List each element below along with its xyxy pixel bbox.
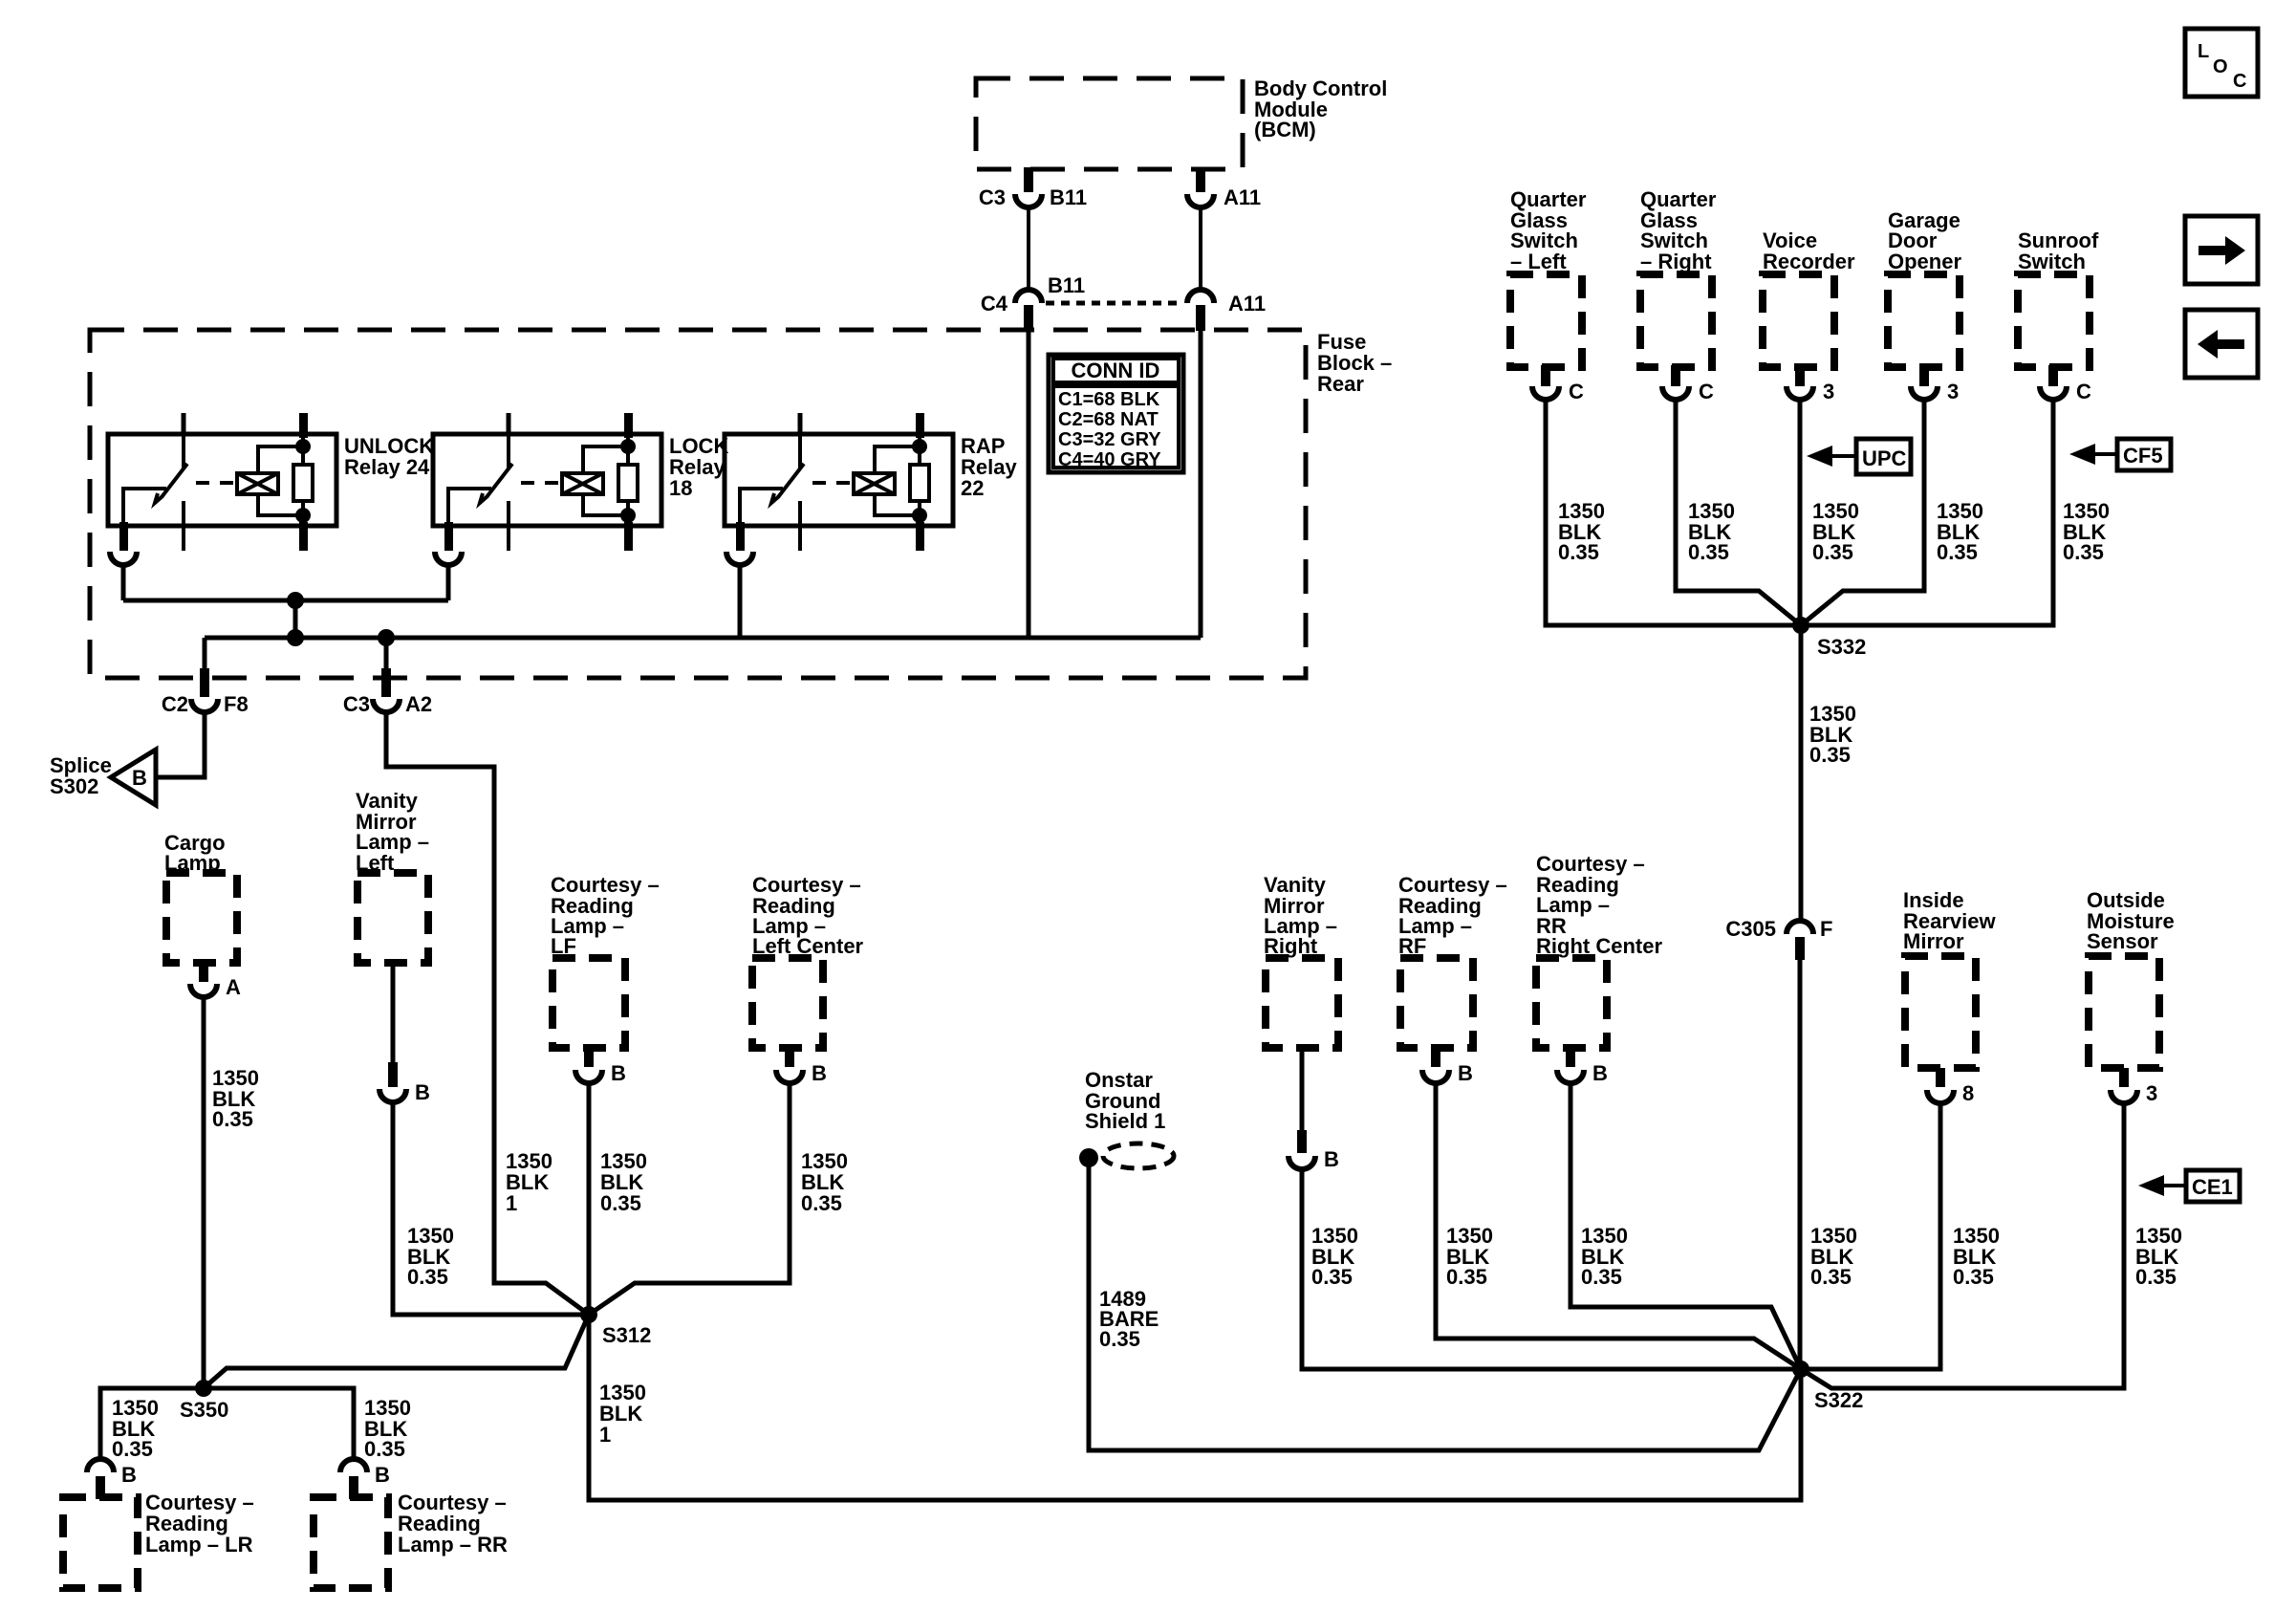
splice S312 bbox=[580, 1306, 651, 1347]
svg-text:(BCM): (BCM) bbox=[1254, 118, 1316, 142]
connector C4 B11 (fuse block entry) bbox=[981, 273, 1085, 331]
wire vanity right to S322 bbox=[1302, 1168, 1801, 1369]
connector B (courtesy reading lamp left center) bbox=[776, 1046, 827, 1085]
svg-text:C3: C3 bbox=[343, 692, 370, 716]
arrow right legend box bbox=[2185, 216, 2258, 284]
Cargo Lamp box bbox=[164, 831, 237, 963]
svg-text:Switch: Switch bbox=[2018, 250, 2086, 273]
Sunroof Switch box bbox=[2018, 229, 2099, 367]
svg-text:0.35: 0.35 bbox=[1581, 1265, 1622, 1289]
svg-text:B: B bbox=[1324, 1147, 1339, 1171]
wire QGS-L to S332 bbox=[1546, 399, 1801, 625]
svg-text:B11: B11 bbox=[1050, 185, 1087, 209]
node main bus junction bbox=[287, 629, 304, 646]
Vanity Mirror Lamp - Left box bbox=[356, 789, 429, 963]
connector B (courtesy reading lamp LF) bbox=[575, 1046, 626, 1085]
connector B (courtesy reading lamp LR) bbox=[87, 1459, 137, 1499]
CE1 callout bbox=[2138, 1170, 2240, 1202]
svg-text:B: B bbox=[1458, 1061, 1473, 1085]
wire vanity right lamp lead bbox=[1300, 1048, 1305, 1134]
svg-text:UPC: UPC bbox=[1862, 446, 1907, 470]
wire vanity left lamp lead bbox=[391, 963, 396, 1064]
svg-text:0.35: 0.35 bbox=[1953, 1265, 1994, 1289]
svg-text:B: B bbox=[812, 1061, 827, 1085]
wire rearview mirror to S322 bbox=[1801, 1101, 1940, 1369]
svg-text:C: C bbox=[2076, 380, 2091, 403]
svg-text:Relay 24: Relay 24 bbox=[344, 455, 430, 479]
node relay bus junction bbox=[287, 592, 304, 609]
Quarter Glass Switch - Left box bbox=[1510, 187, 1587, 367]
svg-text:3: 3 bbox=[2146, 1081, 2157, 1105]
label 1350 BLK 0.35 (C305-S322) bbox=[1810, 1224, 1857, 1289]
svg-text:S350: S350 bbox=[180, 1398, 228, 1422]
Courtesy Reading Lamp RF box bbox=[1398, 873, 1507, 1048]
svg-text:C: C bbox=[2233, 71, 2246, 92]
svg-text:3: 3 bbox=[1823, 380, 1834, 403]
svg-text:O: O bbox=[2213, 56, 2228, 77]
svg-text:Lamp – LR: Lamp – LR bbox=[145, 1533, 253, 1557]
wire sunroof switch to S332 bbox=[1801, 399, 2053, 625]
label 1350 BLK 1 (S312 out) bbox=[599, 1381, 646, 1447]
wire B11 to C4 bbox=[1027, 207, 1030, 291]
relay UNLOCK Relay 24 bbox=[108, 413, 336, 565]
svg-text:Shield 1: Shield 1 bbox=[1085, 1109, 1165, 1133]
label 1350 BLK 0.35 (RR) bbox=[364, 1396, 411, 1461]
svg-text:0.35: 0.35 bbox=[1688, 540, 1729, 564]
wire Onstar ground to S322 bbox=[1089, 1165, 1801, 1450]
svg-text:Recorder: Recorder bbox=[1763, 250, 1855, 273]
svg-text:Mirror: Mirror bbox=[1903, 929, 1964, 953]
label 1350 BLK 0.35 (rearview) bbox=[1953, 1224, 2000, 1289]
svg-text:0.35: 0.35 bbox=[1937, 540, 1978, 564]
svg-text:B: B bbox=[611, 1061, 626, 1085]
connector B (courtesy reading lamp RR) bbox=[340, 1459, 390, 1499]
Courtesy Reading Lamp LR box bbox=[63, 1491, 254, 1588]
splice S350 bbox=[180, 1380, 228, 1422]
label 1350 BLK 0.35 (GDO) bbox=[1937, 499, 1983, 564]
svg-text:CONN ID: CONN ID bbox=[1072, 359, 1160, 382]
label 1350 BLK 0.35 (S332-C305) bbox=[1809, 702, 1856, 767]
wire cargo lamp to S350 bbox=[202, 995, 206, 1388]
wire relay bus bbox=[123, 599, 448, 603]
label 1350 BLK 1 bbox=[506, 1149, 552, 1215]
svg-text:0.35: 0.35 bbox=[801, 1191, 842, 1215]
svg-text:– Left: – Left bbox=[1510, 250, 1567, 273]
connector 3 (outside moisture sensor) bbox=[2111, 1068, 2157, 1105]
CONN ID table bbox=[1049, 355, 1183, 472]
svg-text:C4: C4 bbox=[981, 292, 1008, 316]
Voice Recorder box bbox=[1763, 229, 1855, 367]
wire S332 to C305 bbox=[1799, 625, 1804, 920]
svg-text:18: 18 bbox=[669, 476, 692, 500]
Courtesy Reading Lamp RR box bbox=[314, 1491, 508, 1588]
svg-text:CF5: CF5 bbox=[2123, 444, 2163, 468]
Outside Moisture Sensor box bbox=[2087, 888, 2175, 1068]
svg-text:L: L bbox=[2198, 41, 2209, 62]
svg-text:3: 3 bbox=[1947, 380, 1959, 403]
svg-text:A2: A2 bbox=[405, 692, 432, 716]
connector C (sunroof switch) bbox=[2040, 365, 2091, 403]
wire S312 to S350 bbox=[204, 1315, 589, 1388]
svg-text:C4=40 GRY: C4=40 GRY bbox=[1058, 449, 1161, 470]
relay RAP Relay 22 bbox=[725, 413, 953, 565]
connector B (vanity mirror lamp left) bbox=[379, 1062, 430, 1104]
wire LOCK relay to bus bbox=[446, 565, 451, 600]
Quarter Glass Switch - Right box bbox=[1640, 187, 1717, 367]
svg-text:0.35: 0.35 bbox=[1558, 540, 1599, 564]
svg-text:C3=32 GRY: C3=32 GRY bbox=[1058, 429, 1161, 450]
splice S302 bbox=[50, 750, 156, 805]
wire voice recorder to S332 bbox=[1798, 399, 1803, 625]
svg-text:0.35: 0.35 bbox=[1810, 1265, 1852, 1289]
dashed connector mating line C4-A11 bbox=[1046, 301, 1183, 306]
svg-text:F: F bbox=[1820, 917, 1832, 941]
wire bus link bbox=[293, 600, 298, 638]
connector C2 F8 bbox=[162, 638, 249, 716]
wire vanity left to S312 bbox=[393, 1102, 589, 1315]
wire C2/F8 to splice S302 bbox=[156, 712, 205, 777]
UPC callout bbox=[1807, 439, 1911, 474]
wire QGS-R to S332 bbox=[1676, 399, 1801, 625]
svg-text:0.35: 0.35 bbox=[600, 1191, 641, 1215]
wire RR right center lamp to S322 bbox=[1570, 1082, 1801, 1369]
svg-text:Lamp – RR: Lamp – RR bbox=[398, 1533, 508, 1557]
label 1350 BLK 0.35 (voice recorder) bbox=[1812, 499, 1859, 564]
label 1350 BLK 0.35 (LF) bbox=[600, 1149, 647, 1215]
svg-text:0.35: 0.35 bbox=[1311, 1265, 1353, 1289]
svg-text:S302: S302 bbox=[50, 774, 98, 798]
label 1350 BLK 0.35 (LR) bbox=[112, 1396, 159, 1461]
connector A11 (BCM) bbox=[1187, 167, 1261, 209]
label 1350 BLK 0.35 (RR right center) bbox=[1581, 1224, 1628, 1289]
svg-text:– Right: – Right bbox=[1640, 250, 1712, 273]
svg-text:22: 22 bbox=[961, 476, 984, 500]
svg-text:A11: A11 bbox=[1224, 185, 1261, 209]
connector A11 (fuse block entry) bbox=[1187, 290, 1266, 331]
wire main ground bus bbox=[205, 636, 1201, 641]
Body Control Module (BCM) box bbox=[976, 76, 1387, 169]
svg-text:0.35: 0.35 bbox=[112, 1437, 153, 1461]
svg-text:S312: S312 bbox=[602, 1323, 651, 1347]
svg-text:0.35: 0.35 bbox=[1812, 540, 1853, 564]
Onstar Ground Shield 1 bbox=[1079, 1068, 1174, 1168]
Inside Rearview Mirror box bbox=[1903, 888, 1997, 1068]
label 1350 BLK 0.35 (vanity left) bbox=[407, 1224, 454, 1289]
wire UNLOCK relay to bus bbox=[121, 565, 126, 600]
svg-text:Rear: Rear bbox=[1317, 372, 1364, 396]
svg-text:0.35: 0.35 bbox=[1809, 743, 1851, 767]
Garage Door Opener box bbox=[1888, 208, 1961, 367]
connector 3 (garage door opener) bbox=[1911, 365, 1959, 403]
label 1350 BLK 0.35 (QGS-R) bbox=[1688, 499, 1735, 564]
wire S350 lamp branch bus bbox=[100, 1388, 354, 1460]
svg-text:S322: S322 bbox=[1814, 1388, 1863, 1412]
svg-text:B: B bbox=[132, 766, 147, 790]
connector C305 F bbox=[1725, 917, 1832, 960]
label 1350 BLK 0.35 (RF) bbox=[1446, 1224, 1493, 1289]
wire A11 down to bus bbox=[1199, 330, 1203, 638]
svg-text:0.35: 0.35 bbox=[2135, 1265, 2177, 1289]
svg-text:0.35: 0.35 bbox=[364, 1437, 405, 1461]
svg-text:Sensor: Sensor bbox=[2087, 929, 2158, 953]
svg-text:1: 1 bbox=[599, 1423, 611, 1447]
splice S332 bbox=[1792, 617, 1866, 659]
label 1350 BLK 0.35 (left center) bbox=[801, 1149, 848, 1215]
svg-text:CE1: CE1 bbox=[2192, 1175, 2233, 1199]
LOC legend box bbox=[2185, 29, 2258, 97]
connector C3 B11 (BCM) bbox=[979, 167, 1087, 209]
svg-text:C2=68 NAT: C2=68 NAT bbox=[1058, 409, 1159, 430]
splice S322 bbox=[1792, 1361, 1863, 1412]
wire RF lamp to S322 bbox=[1436, 1082, 1801, 1369]
connector C3 A2 bbox=[343, 638, 432, 716]
Fuse Block - Rear dashed border bbox=[90, 330, 1392, 678]
wire garage door opener to S332 bbox=[1801, 399, 1924, 625]
Courtesy Reading Lamp LF box bbox=[551, 873, 660, 1048]
svg-text:C2: C2 bbox=[162, 692, 188, 716]
Courtesy Reading Lamp RR Right Center box bbox=[1536, 852, 1662, 1048]
connector B (courtesy reading lamp RF) bbox=[1422, 1046, 1473, 1085]
label 1350 BLK 0.35 (QGS-L) bbox=[1558, 499, 1605, 564]
node C3/A2 branch junction bbox=[378, 629, 395, 646]
label 1489 BARE 0.35 bbox=[1099, 1287, 1159, 1351]
wire LF lamp to S312 bbox=[587, 1082, 592, 1315]
label 1350 BLK 0.35 (vanity right) bbox=[1311, 1224, 1358, 1289]
label 1350 BLK 0.35 (sunroof) bbox=[2063, 499, 2110, 564]
wire left center lamp to S312 bbox=[589, 1082, 790, 1315]
wire C305 to S322 bbox=[1798, 959, 1803, 1369]
svg-text:0.35: 0.35 bbox=[1099, 1327, 1140, 1351]
wire C3/A2 to S312 bbox=[386, 712, 589, 1315]
connector C (quarter glass switch left) bbox=[1532, 365, 1584, 403]
svg-text:C: C bbox=[1569, 380, 1584, 403]
connector 8 (inside rearview mirror) bbox=[1927, 1068, 1974, 1105]
connector B (vanity mirror lamp right) bbox=[1289, 1130, 1339, 1171]
svg-text:B: B bbox=[121, 1463, 137, 1487]
wire A11 to fuse block bbox=[1199, 207, 1202, 291]
label 1350 BLK 0.35 (cargo) bbox=[212, 1066, 259, 1131]
svg-text:Opener: Opener bbox=[1888, 250, 1961, 273]
CF5 callout bbox=[2069, 439, 2171, 470]
wire S312 to S322 bbox=[589, 1315, 1801, 1500]
svg-text:0.35: 0.35 bbox=[1446, 1265, 1487, 1289]
Courtesy Reading Lamp Left Center box bbox=[752, 873, 864, 1048]
connector B (courtesy reading lamp RR right center) bbox=[1557, 1046, 1608, 1085]
svg-text:B: B bbox=[1592, 1061, 1608, 1085]
svg-text:0.35: 0.35 bbox=[212, 1107, 253, 1131]
svg-text:C: C bbox=[1699, 380, 1714, 403]
svg-text:0.35: 0.35 bbox=[2063, 540, 2104, 564]
svg-text:S332: S332 bbox=[1817, 635, 1866, 659]
wire moisture sensor to S322 bbox=[1801, 1101, 2124, 1388]
svg-text:C1=68 BLK: C1=68 BLK bbox=[1058, 389, 1160, 410]
svg-text:F8: F8 bbox=[224, 692, 249, 716]
svg-text:A11: A11 bbox=[1228, 292, 1266, 316]
arrow left legend box bbox=[2185, 310, 2258, 378]
relay LOCK Relay 18 bbox=[433, 413, 661, 565]
wire RAP relay to bus bbox=[738, 565, 743, 638]
svg-text:1: 1 bbox=[506, 1191, 517, 1215]
svg-text:B: B bbox=[375, 1463, 390, 1487]
connector 3 (voice recorder) bbox=[1787, 365, 1834, 403]
svg-text:A: A bbox=[226, 975, 241, 999]
svg-text:C305: C305 bbox=[1725, 917, 1776, 941]
connector C (quarter glass switch right) bbox=[1662, 365, 1714, 403]
svg-text:8: 8 bbox=[1962, 1081, 1974, 1105]
Vanity Mirror Lamp - Right box bbox=[1264, 873, 1338, 1048]
svg-text:B11: B11 bbox=[1048, 273, 1085, 297]
svg-text:0.35: 0.35 bbox=[407, 1265, 448, 1289]
svg-text:C3: C3 bbox=[979, 185, 1006, 209]
connector A (cargo lamp) bbox=[190, 963, 241, 999]
wire C4 down to bus bbox=[1027, 330, 1031, 638]
svg-text:B: B bbox=[415, 1080, 430, 1104]
label 1350 BLK 0.35 (moisture) bbox=[2135, 1224, 2182, 1289]
